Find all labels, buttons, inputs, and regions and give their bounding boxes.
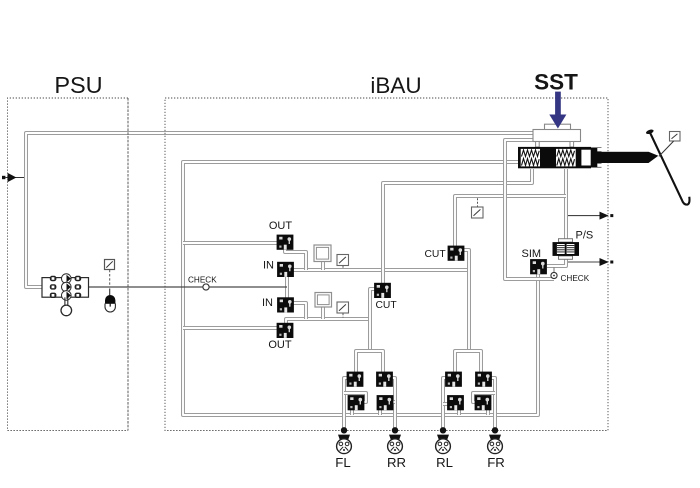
wire pump output line with check valve (89, 286, 288, 288)
wire front IN line (285, 250, 469, 270)
wire rear IN line (286, 303, 370, 323)
pressure sensor center (472, 198, 484, 218)
wheel RL (436, 427, 451, 454)
wire MC port1 circuit to CUT-L (383, 169, 532, 284)
iBAU enclosure (dashed) (165, 98, 608, 431)
svg-text:IN: IN (263, 260, 274, 272)
wire FR wheel line (490, 378, 495, 430)
svg-text:FL: FL (335, 455, 350, 470)
wire IN1-IN2 junction (285, 277, 289, 298)
valve FR inlet (475, 372, 492, 387)
damper chamber rear (315, 293, 332, 308)
reservoir (533, 130, 581, 142)
pressure sensor front (337, 255, 349, 270)
wire FL outlet valve link (344, 393, 366, 402)
pump P1 (42, 274, 89, 300)
svg-text:RL: RL (436, 455, 453, 470)
svg-text:CUT: CUT (376, 300, 398, 311)
wire OUT2 return stub (183, 326, 278, 330)
wire RL outlet valve link (443, 402, 448, 406)
valve OUT rear (277, 323, 294, 338)
wheel RR (388, 427, 403, 454)
arrow port lower right (568, 258, 613, 266)
svg-text:iBAU: iBAU (370, 73, 421, 98)
wire iBAU return loop (183, 162, 538, 415)
pedal stroke sensor (659, 132, 680, 157)
svg-text:P/S: P/S (576, 230, 594, 242)
svg-text:CUT: CUT (425, 249, 447, 260)
check valve (SIM) (551, 267, 557, 279)
wire MC port2 circuit to P/S and CUT-R (455, 169, 566, 247)
valve RR outlet (377, 395, 394, 410)
valve SIM (530, 259, 547, 274)
valve RL outlet (447, 395, 464, 410)
wire CUT-R to right wheel group riser (455, 250, 481, 372)
valve RL inlet (445, 372, 462, 387)
wheel FR (488, 427, 503, 454)
arrow port upper right (568, 212, 613, 220)
svg-text:FR: FR (487, 455, 505, 470)
svg-text:OUT: OUT (269, 220, 293, 232)
motor M (61, 297, 72, 315)
valve CUT-R (448, 246, 465, 261)
wire RR outlet valve link (392, 400, 396, 404)
valve RR inlet (376, 372, 393, 387)
valve FL outlet (348, 395, 365, 410)
pressure sensor rear (337, 302, 349, 318)
stroke simulator P/S (553, 239, 580, 260)
reservoir cap (545, 124, 571, 130)
damper chamber front (314, 245, 331, 262)
wire RL wheel line (443, 378, 446, 430)
wire CUT-L to left wheel group riser (356, 289, 383, 372)
wire FL wheel line (344, 378, 348, 430)
svg-text:PSU: PSU (54, 72, 102, 98)
wire outlet valve return stubs (352, 410, 488, 416)
svg-text:CHECK: CHECK (188, 276, 217, 285)
node input arrow into PSU (2, 173, 24, 182)
accumulator (105, 295, 115, 312)
wire RR wheel line (391, 378, 395, 430)
svg-text:IN: IN (262, 297, 273, 309)
svg-text:SIM: SIM (522, 248, 542, 260)
brake pedal lever (645, 129, 689, 205)
check valve (PSU) (203, 284, 209, 290)
wire reservoir to SIM check valve (505, 140, 554, 279)
svg-text:OUT: OUT (268, 339, 292, 351)
valve CUT-L (374, 283, 391, 298)
valve FR outlet (475, 395, 492, 410)
wire FR outlet valve link (473, 393, 495, 402)
wire OUT1 return stub (183, 241, 278, 245)
PSU enclosure (dashed) (8, 98, 129, 431)
master cylinder body (518, 147, 591, 168)
valve IN front (277, 262, 294, 277)
SST blue arrow (549, 92, 566, 129)
valve OUT front (277, 235, 294, 250)
svg-text:SST: SST (534, 70, 578, 95)
reservoir posts (536, 142, 574, 148)
svg-text:RR: RR (387, 455, 406, 470)
wire reservoir supply pipe (PSU loop) (26, 133, 533, 287)
master cylinder pushrod (591, 148, 658, 168)
svg-text:CHECK: CHECK (561, 274, 590, 283)
pressure sensor (PSU) (105, 260, 115, 296)
valve IN rear (277, 297, 294, 312)
wire P/S to SIM valve (547, 257, 566, 266)
valve FL inlet (347, 372, 364, 387)
wheel FL (337, 427, 352, 454)
